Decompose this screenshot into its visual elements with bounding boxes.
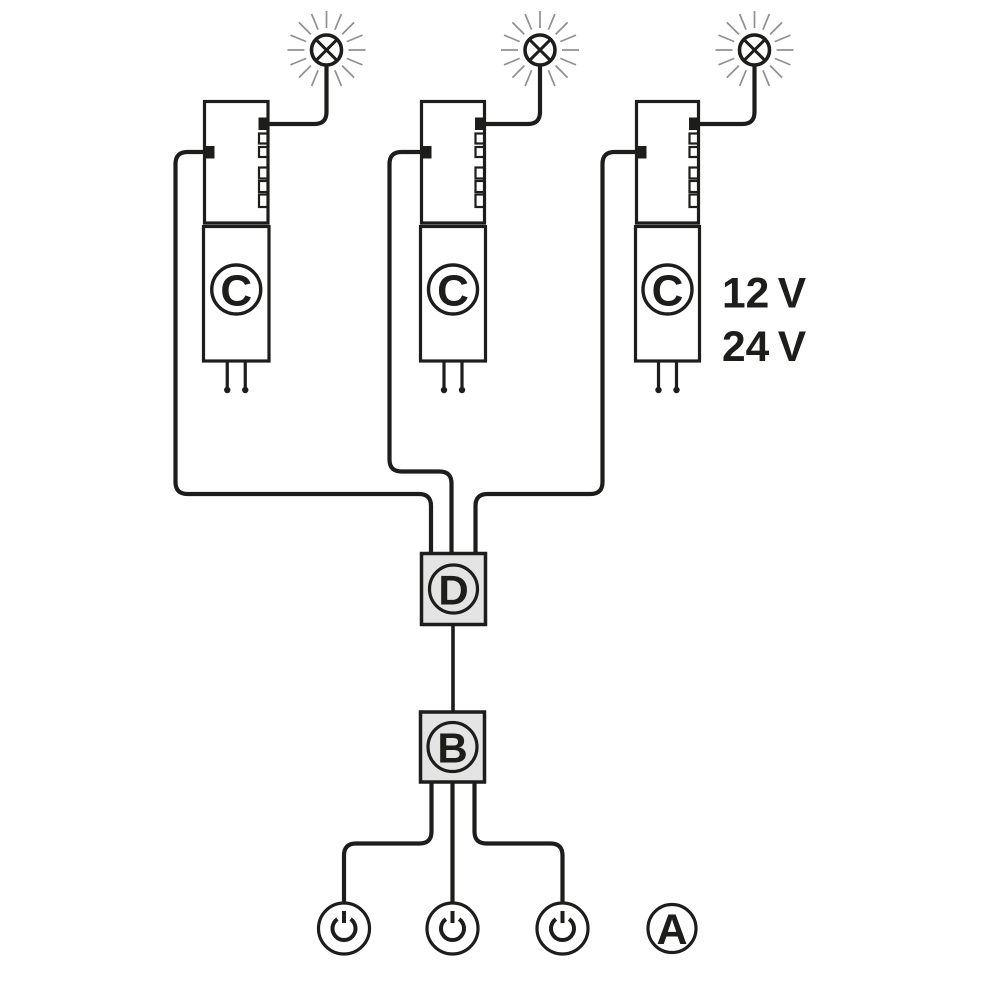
LED module 2 label C [429,265,478,314]
branch box B [421,712,485,782]
LED module 2 input terminal (black, left) [422,146,432,159]
LED module 1 input terminal (black, left) [205,146,215,159]
lamp E3 rays [716,11,794,86]
LED module 2 output terminal (black, top right) [475,118,485,131]
svg-text:A: A [656,906,687,954]
svg-text:12 V: 12 V [722,271,807,318]
LED module 3 input terminal (black, left) [637,146,647,159]
LED module 2 DIP switch bank [476,134,485,208]
svg-text:C: C [652,267,684,316]
lamp E2 rays [501,11,579,86]
LED module 1 supply pins [227,361,245,389]
LED module 3 output terminal (black, top right) [689,118,699,131]
svg-text:24 V: 24 V [722,324,807,371]
wire from LED module 1 output terminal to lamp E1 [264,64,327,124]
wire branch B to switch 3 [475,781,563,903]
wire branch B to switch 1 [344,781,432,903]
lamp E1 circle with cross [312,35,342,65]
wire from LED module 3 input to distributor D (right) [476,152,639,555]
wire branch B to switch 2 [450,781,454,903]
LED module 2 upper housing [422,102,485,224]
LED module 2 supply pins [444,361,462,389]
wire from LED module 2 output terminal to lamp E2 [481,64,541,124]
lamp E2 circle with cross [525,35,555,65]
svg-text:B: B [437,725,467,772]
wire distributor D to branch B [451,623,455,713]
lamp E3 circle with cross [740,35,770,65]
distributor label D [430,565,478,613]
wire from LED module 2 input to distributor D (middle) [390,152,452,555]
switch S1 (power button) [319,903,370,954]
LED module 3 lower housing [636,227,700,362]
branch label B [428,723,477,772]
LED module 1 upper housing [205,102,269,224]
LED module 2 lower housing [421,227,486,362]
svg-text:C: C [220,267,252,316]
LED module 3 DIP switch bank [690,134,699,208]
LED module 1 label C [212,265,261,314]
LED module 1 lower housing [204,227,270,362]
LED module 1 output terminal (black, top right) [259,118,269,131]
LED module 3 label C [643,265,692,314]
lamp E1 rays [288,11,366,86]
switch S3 (power button) [537,903,588,954]
LED module 3 upper housing [637,102,699,224]
LED module 3 supply pins [659,361,677,389]
switch S2 (power button) [427,903,478,954]
svg-text:C: C [437,267,469,316]
label A (remote/app control) [648,905,696,953]
LED module 1 DIP switch bank [259,134,268,208]
svg-text:D: D [438,567,468,614]
wire from LED module 3 output terminal to lamp E3 [695,64,755,124]
distributor box D [422,554,486,625]
wire from LED module 1 input to distributor D (left) [176,152,432,555]
